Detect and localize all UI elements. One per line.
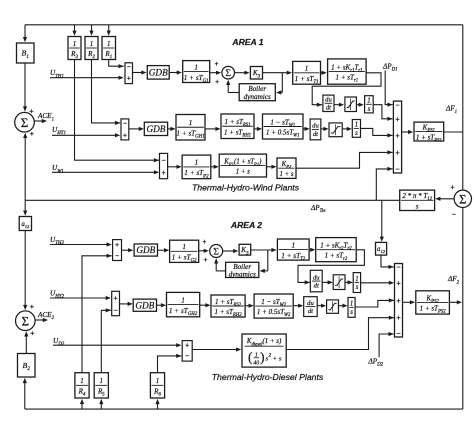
svg-text:+: +: [203, 257, 207, 264]
svg-text:1: 1: [107, 40, 111, 48]
svg-text:+: +: [162, 170, 166, 177]
svg-text:1 + s: 1 + s: [279, 171, 293, 178]
svg-text:GDB: GDB: [135, 300, 154, 310]
svg-text:GDB: GDB: [149, 67, 168, 77]
svg-text:1: 1: [90, 40, 94, 48]
svg-text:+: +: [451, 184, 455, 191]
svg-text:+: +: [185, 343, 189, 350]
svg-text:+: +: [273, 355, 277, 362]
svg-text:Thermal-Hydro-Wind Plants: Thermal-Hydro-Wind Plants: [192, 183, 300, 193]
svg-text:+: +: [395, 148, 399, 157]
svg-text:1: 1: [181, 296, 185, 304]
svg-text:+: +: [114, 295, 118, 302]
svg-text:Σ: Σ: [213, 246, 219, 257]
svg-text:1: 1: [367, 98, 370, 105]
svg-text:du: du: [325, 97, 332, 104]
svg-text:+: +: [30, 328, 35, 337]
svg-text:dynamics: dynamics: [244, 93, 271, 101]
svg-text:+: +: [123, 132, 127, 139]
svg-text:+: +: [202, 239, 206, 246]
svg-text:+: +: [396, 279, 400, 288]
svg-text:s: s: [356, 284, 359, 291]
svg-text:+: +: [395, 131, 399, 140]
svg-text:−: −: [115, 253, 119, 260]
svg-text:+: +: [127, 75, 131, 82]
svg-text:+: +: [30, 129, 35, 138]
svg-text:1: 1: [350, 301, 353, 308]
svg-text:−: −: [396, 263, 400, 272]
svg-text:s: s: [279, 355, 282, 362]
svg-text:dt: dt: [326, 105, 331, 112]
svg-text:s: s: [355, 130, 358, 137]
svg-text:+: +: [115, 242, 119, 249]
svg-text:−: −: [395, 100, 399, 109]
svg-text:du: du: [307, 300, 314, 307]
svg-text:1: 1: [73, 40, 77, 48]
svg-text:s: s: [350, 309, 353, 316]
svg-text:dt: dt: [314, 282, 319, 289]
svg-text:Σ: Σ: [21, 115, 29, 130]
svg-text:−: −: [114, 307, 118, 314]
svg-text:1: 1: [189, 119, 193, 127]
svg-text:du: du: [313, 274, 320, 281]
svg-text:+: +: [396, 313, 400, 322]
svg-text:+: +: [30, 302, 35, 311]
svg-text:dt: dt: [313, 131, 318, 138]
svg-text:1 + s: 1 + s: [236, 168, 250, 175]
svg-text:): ): [260, 350, 265, 365]
svg-text:−: −: [162, 158, 166, 165]
svg-text:1: 1: [182, 243, 186, 251]
svg-text:−: −: [185, 353, 189, 360]
svg-text:(: (: [248, 350, 253, 365]
svg-text:+: +: [395, 115, 399, 124]
svg-text:−: −: [395, 164, 399, 173]
svg-text:GDB: GDB: [136, 245, 155, 255]
svg-text:s: s: [416, 202, 419, 210]
svg-text:1: 1: [305, 65, 309, 73]
svg-text:1: 1: [195, 159, 199, 167]
svg-text:s: s: [368, 106, 371, 113]
svg-text:+: +: [215, 79, 219, 86]
svg-text:1: 1: [100, 377, 104, 385]
svg-text:+: +: [396, 296, 400, 305]
svg-text:AREA 2: AREA 2: [230, 220, 262, 230]
svg-text:−: −: [127, 64, 131, 71]
svg-text:GDB: GDB: [147, 124, 166, 134]
svg-text:dt: dt: [308, 308, 313, 315]
svg-text:Boiler: Boiler: [248, 85, 266, 93]
svg-text:Σ: Σ: [225, 68, 231, 79]
svg-text:−: −: [396, 329, 400, 338]
svg-text:AREA 1: AREA 1: [231, 37, 263, 47]
svg-text:1: 1: [80, 377, 84, 385]
svg-text:1: 1: [355, 122, 358, 129]
svg-text:1: 1: [156, 377, 160, 385]
svg-text:Thermal-Hydro-Diesel Plants: Thermal-Hydro-Diesel Plants: [212, 372, 324, 382]
svg-text:−: −: [452, 212, 456, 219]
svg-text:dynamics: dynamics: [229, 271, 256, 279]
svg-text:40: 40: [253, 360, 259, 367]
svg-text:1: 1: [194, 63, 198, 71]
svg-text:Σ: Σ: [459, 192, 466, 206]
svg-text:−: −: [123, 121, 127, 128]
svg-text:1: 1: [355, 276, 358, 283]
svg-text:1: 1: [291, 241, 295, 249]
svg-text:Σ: Σ: [22, 313, 30, 328]
svg-text:+: +: [215, 61, 219, 68]
svg-text:du: du: [312, 123, 319, 130]
